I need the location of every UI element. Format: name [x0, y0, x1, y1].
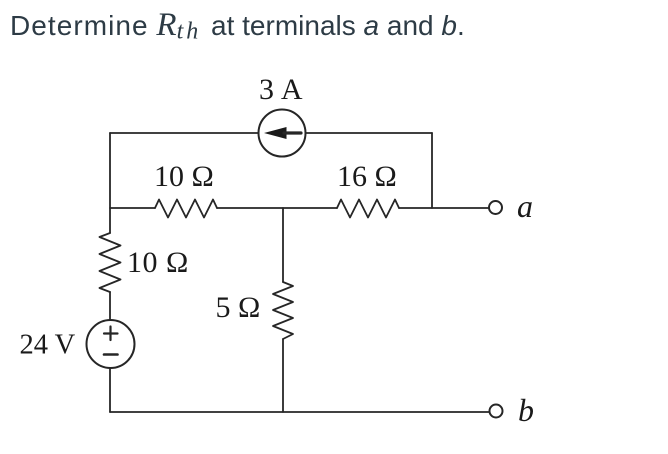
wire left vertical upper [109, 133, 111, 233]
wire left vertical lower [109, 368, 111, 412]
wire left vertical mid [109, 292, 111, 320]
svg-text:b: b [518, 392, 534, 428]
resistor R4 5 ohm vertical [273, 282, 293, 339]
resistor R1 10 ohm horizontal [155, 200, 217, 218]
svg-text:a: a [517, 188, 533, 224]
resistor R3 10 ohm vertical [100, 233, 121, 292]
terminal b circle [490, 405, 503, 418]
terminal a circle [489, 201, 502, 214]
svg-text:10 Ω: 10 Ω [154, 160, 214, 193]
wire middle row left [110, 207, 155, 209]
current source I1 3A [259, 110, 306, 157]
resistor R2 16 ohm [337, 200, 399, 218]
svg-text:10 Ω: 10 Ω [127, 246, 189, 279]
voltage source V1 24V [87, 320, 135, 368]
wire top-left horizontal segment [110, 132, 259, 134]
wire middle vertical lower [282, 339, 284, 412]
svg-text:16 Ω: 16 Ω [337, 160, 397, 193]
svg-text:3 A: 3 A [259, 73, 303, 106]
wire middle row right to terminal a [399, 207, 489, 209]
title text [10, 7, 465, 46]
svg-text:5 Ω: 5 Ω [216, 291, 261, 324]
wire middle row center [217, 207, 337, 209]
svg-text:24 V: 24 V [20, 330, 76, 361]
wire right vertical [431, 133, 433, 208]
wire middle vertical upper [282, 208, 284, 282]
wire top-right horizontal segment [306, 132, 433, 134]
wire bottom [110, 411, 490, 413]
